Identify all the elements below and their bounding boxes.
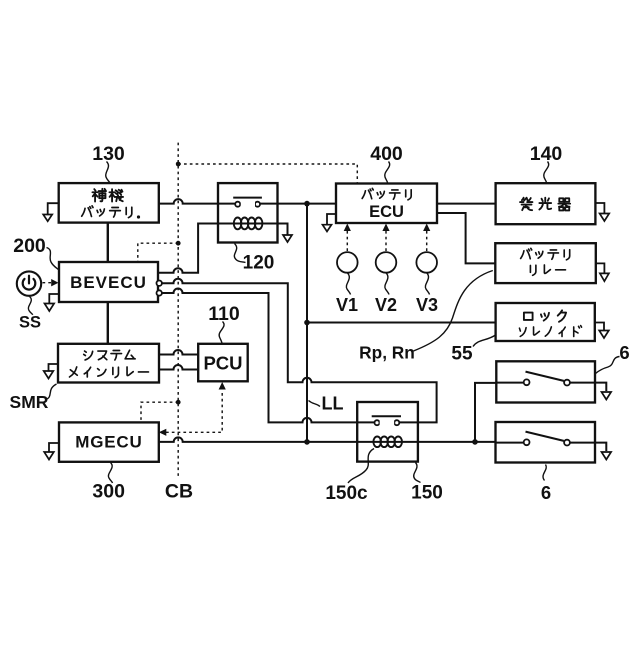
svg-text:6: 6 — [619, 342, 629, 363]
wire BEVECU c to 150 contact left — [162, 289, 375, 423]
leader 120 — [234, 244, 245, 263]
leader V3 — [425, 273, 429, 295]
svg-text:120: 120 — [243, 252, 275, 273]
svg-text:MGECU: MGECU — [75, 433, 142, 452]
dashed branch to MGECU top — [141, 402, 178, 422]
junction node switches — [472, 439, 478, 445]
ground light emitter — [595, 203, 604, 214]
leader LL — [309, 401, 321, 407]
ground switch1 — [602, 392, 612, 400]
svg-text:V3: V3 — [416, 295, 438, 315]
svg-text:CB: CB — [165, 481, 193, 503]
ground aux battery — [48, 203, 59, 214]
dashed branch to BEVECU top — [138, 243, 178, 261]
box switch 1 — [496, 361, 595, 402]
leader V1 — [346, 273, 350, 295]
svg-text:ECU: ECU — [369, 203, 404, 221]
dashed junction dot C — [176, 400, 181, 405]
ground battery relay — [596, 263, 605, 273]
box battery relay — [495, 243, 596, 283]
wire BEVECU to coil 120 — [158, 224, 233, 273]
svg-text:V1: V1 — [336, 295, 358, 315]
svg-text:55: 55 — [451, 344, 473, 365]
switch 2 wire and contacts — [496, 442, 596, 444]
svg-text:400: 400 — [370, 143, 403, 165]
relay 120 coil — [218, 223, 278, 225]
power icon — [23, 276, 36, 290]
box system main relay SMR — [58, 344, 159, 383]
relay 150 coil — [357, 441, 418, 443]
leader 55 — [473, 335, 496, 347]
leader V2 — [385, 273, 389, 295]
dashed arrow MGECU-PCU link — [166, 390, 222, 432]
box light emitter 140 — [496, 183, 596, 224]
wire junction to switch1 — [475, 383, 496, 442]
leader 150c — [348, 449, 374, 484]
wire bus battery-BEVECU — [107, 224, 109, 262]
wire battery to relay120 to battery ECU — [159, 199, 336, 204]
dashed arrow V2 to ECU — [385, 231, 387, 251]
wire to lock solenoid — [307, 322, 496, 324]
box PCU 110 — [198, 344, 248, 382]
wire MGECU to coil 150 — [159, 437, 374, 442]
svg-text:BEVECU: BEVECU — [70, 273, 147, 292]
svg-text:110: 110 — [208, 303, 240, 325]
leader 300 — [108, 463, 112, 484]
junction node lock line — [304, 320, 310, 326]
leader SMR — [46, 384, 57, 400]
wire battery ECU to light — [437, 203, 496, 205]
leader SS — [28, 297, 32, 315]
leader 140 — [544, 162, 549, 183]
relay 120 contact — [233, 197, 262, 199]
svg-text:PCU: PCU — [203, 353, 242, 374]
svg-text:300: 300 — [92, 481, 125, 503]
box switch 2 — [496, 422, 596, 463]
wire battery ECU to battery relay — [437, 213, 495, 263]
relay 150 contact — [372, 415, 401, 417]
BEVECU terminal circle b — [157, 281, 162, 286]
ground BEVECU — [49, 294, 59, 304]
wire switch2 ground lead — [595, 443, 606, 451]
ground lock solenoid — [595, 323, 604, 331]
ground SMR — [49, 364, 59, 371]
dashed junction dot B — [176, 241, 181, 246]
leader 400 — [385, 162, 390, 183]
svg-text:140: 140 — [530, 143, 563, 165]
V1 sensor circle — [337, 252, 358, 273]
wire switch1 ground lead — [595, 383, 606, 391]
dashed branch to battery ECU top — [178, 164, 357, 183]
leader 6 top — [596, 357, 620, 374]
switch 1 wire and contacts — [496, 382, 595, 384]
junction node LL bottom — [304, 439, 310, 445]
svg-text:200: 200 — [13, 235, 46, 257]
svg-text:130: 130 — [92, 143, 125, 165]
wire SMR-PCU a — [159, 350, 198, 355]
svg-text:SMR: SMR — [10, 392, 49, 412]
box MGECU 300 — [59, 422, 159, 461]
svg-text:V2: V2 — [375, 295, 397, 315]
junction node LL top — [304, 201, 310, 207]
ground MGECU — [49, 443, 59, 452]
ground coil 120 — [283, 235, 292, 242]
svg-text:6: 6 — [541, 482, 551, 503]
wire BEVECU b to 150 contact right — [162, 279, 437, 423]
leader 150 — [414, 463, 421, 483]
ground switch2 — [602, 452, 612, 460]
leader 200 — [47, 248, 59, 270]
svg-text:Rp, Rn: Rp, Rn — [359, 343, 415, 363]
box BEVECU 200 — [59, 262, 158, 302]
BEVECU terminal circle c — [157, 290, 162, 295]
wire coil150 to switch2 — [400, 441, 496, 443]
wire LL vertical — [306, 204, 308, 442]
wire bus BEVECU-SMR — [107, 302, 109, 344]
box relay 150 — [357, 402, 418, 462]
box aux battery 130 — [59, 183, 159, 223]
svg-text:LL: LL — [322, 394, 344, 414]
box battery ECU 400 — [336, 184, 437, 224]
leader 130 — [106, 162, 110, 184]
dashed arrow SS to BEVECU — [43, 282, 52, 284]
svg-text:150c: 150c — [325, 483, 368, 504]
V3 sensor circle — [416, 252, 437, 273]
dashed arrow V3 to ECU — [426, 231, 428, 251]
wire SMR-PCU b — [159, 365, 198, 370]
leader 110 — [219, 322, 224, 344]
wire coil 120 to ground — [262, 224, 288, 236]
box relay 120 — [218, 183, 278, 242]
svg-text:150: 150 — [411, 483, 443, 504]
svg-text:SS: SS — [19, 313, 41, 331]
ground battery ECU — [327, 214, 336, 225]
leader Rp Rn curve — [413, 271, 492, 352]
dashed junction dot A — [176, 162, 181, 167]
leader 6 bottom — [543, 465, 546, 481]
V2 sensor circle — [376, 252, 397, 273]
dashed CB vertical line — [177, 143, 179, 477]
dashed arrow V1 to ECU — [346, 231, 348, 251]
start switch SS circle — [17, 271, 41, 295]
box lock solenoid 55 — [496, 303, 595, 341]
